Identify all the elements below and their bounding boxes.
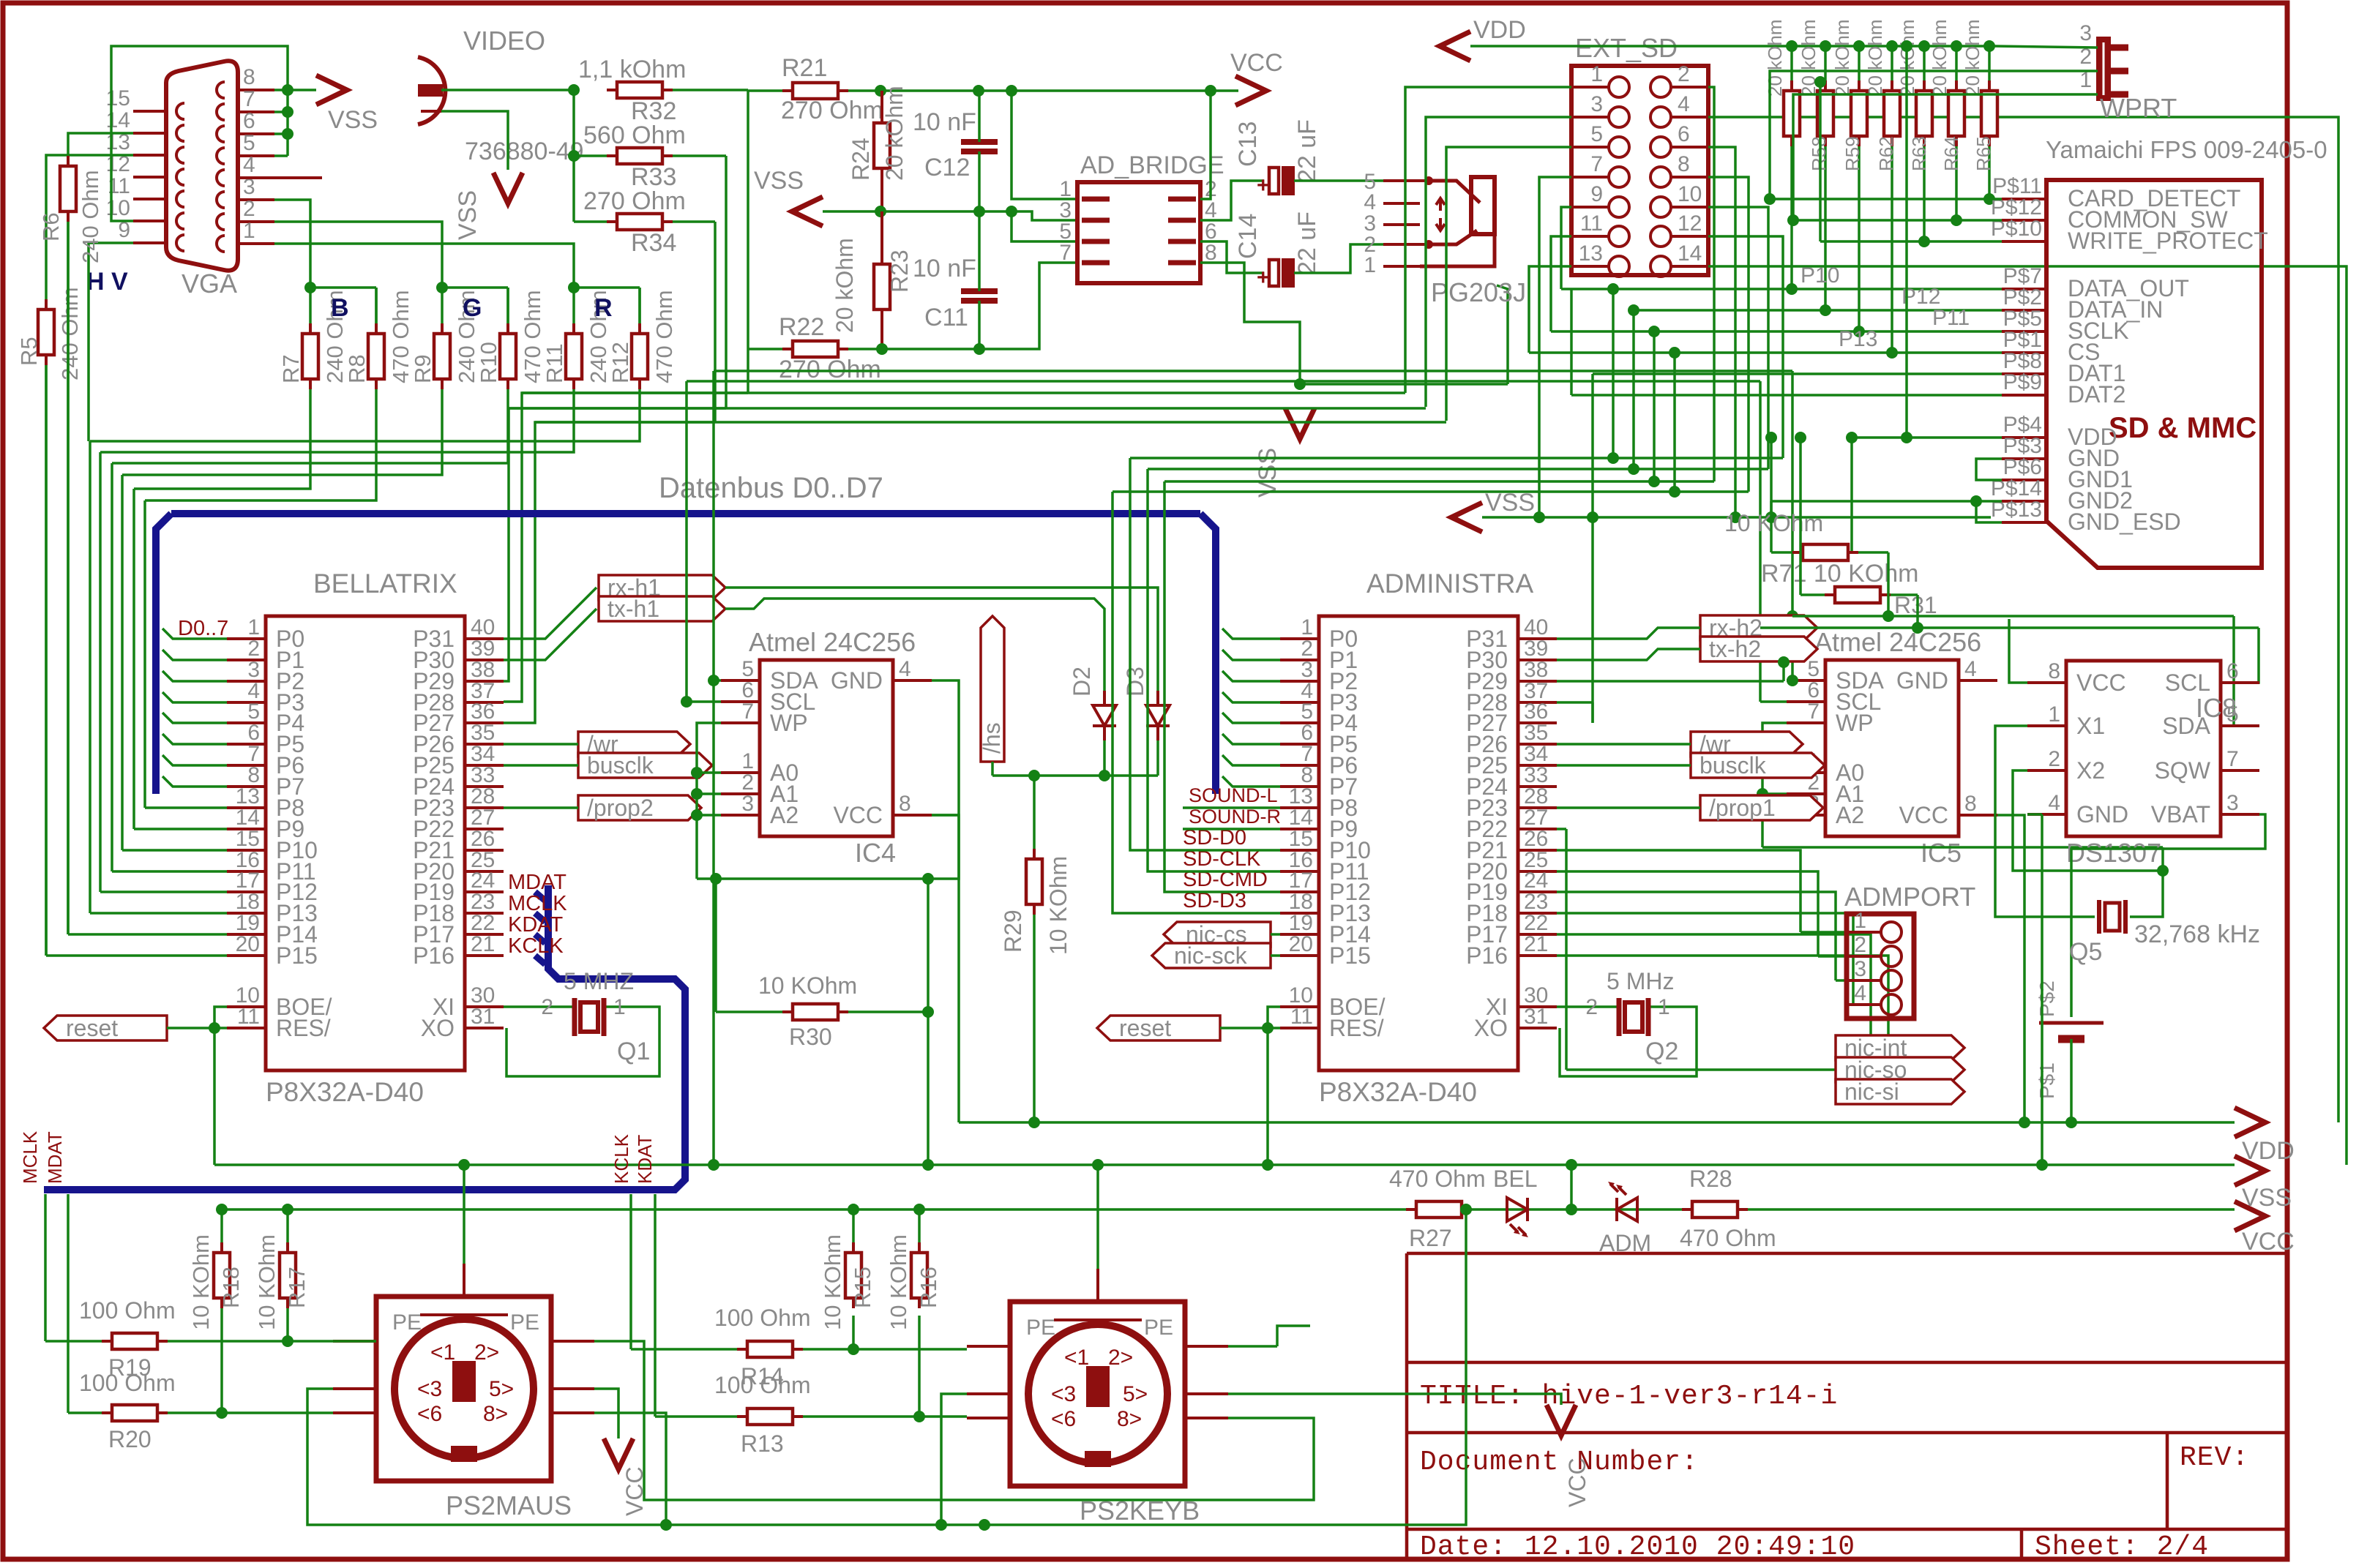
svg-text:100 Ohm: 100 Ohm — [714, 1372, 811, 1398]
svg-text:R59: R59 — [1841, 136, 1863, 171]
svg-text:<1: <1 — [430, 1340, 455, 1365]
svg-text:20: 20 — [1289, 932, 1313, 956]
svg-text:EXT_SD: EXT_SD — [1575, 33, 1678, 63]
svg-text:P16: P16 — [413, 942, 455, 969]
svg-text:C11: C11 — [924, 304, 968, 331]
svg-text:10 KOhm: 10 KOhm — [1724, 510, 1823, 536]
svg-text:4: 4 — [243, 153, 255, 177]
svg-text:4: 4 — [1964, 657, 1977, 681]
svg-text:D3: D3 — [1122, 667, 1148, 697]
svg-text:R9: R9 — [410, 354, 435, 383]
svg-text:G: G — [463, 294, 482, 322]
svg-text:10 KOhm: 10 KOhm — [188, 1234, 214, 1330]
svg-text:8: 8 — [1964, 792, 1977, 816]
svg-text:736880-49: 736880-49 — [465, 138, 584, 165]
svg-text:VBAT: VBAT — [2151, 801, 2210, 828]
svg-text:5>: 5> — [1123, 1382, 1148, 1406]
svg-text:240 Ohm: 240 Ohm — [57, 287, 83, 380]
svg-text:270 Ohm: 270 Ohm — [779, 356, 881, 383]
svg-text:Datenbus D0..D7: Datenbus D0..D7 — [659, 472, 883, 504]
svg-text:5 MHz: 5 MHz — [1607, 968, 1674, 994]
svg-text:Date: 12.10.2010 20:49:10: Date: 12.10.2010 20:49:10 — [1420, 1531, 1855, 1563]
svg-text:B: B — [331, 294, 349, 322]
svg-text:WRITE_PROTECT: WRITE_PROTECT — [2068, 228, 2268, 254]
svg-text:KDAT: KDAT — [508, 913, 563, 937]
svg-text:R20: R20 — [108, 1426, 152, 1452]
svg-text:VSS: VSS — [454, 190, 482, 240]
svg-text:VCC: VCC — [2076, 669, 2126, 696]
svg-text:470 Ohm: 470 Ohm — [1680, 1225, 1776, 1251]
svg-text:3: 3 — [2079, 21, 2092, 45]
svg-text:8: 8 — [243, 65, 255, 89]
svg-text:12: 12 — [1678, 211, 1702, 236]
svg-text:P15: P15 — [1329, 942, 1371, 969]
svg-text:8>: 8> — [483, 1402, 508, 1426]
svg-text:SQW: SQW — [2155, 757, 2211, 784]
svg-text:PE: PE — [392, 1310, 422, 1335]
svg-text:6: 6 — [2226, 659, 2239, 683]
svg-text:8: 8 — [1678, 152, 1690, 176]
svg-text:busclk: busclk — [587, 752, 654, 779]
svg-text:VGA: VGA — [182, 269, 237, 299]
svg-text:14: 14 — [106, 108, 130, 132]
svg-text:R58: R58 — [1808, 136, 1830, 171]
svg-text:15: 15 — [106, 86, 130, 110]
svg-text:10 nF: 10 nF — [913, 255, 976, 282]
svg-text:R21: R21 — [782, 54, 827, 82]
svg-text:R10: R10 — [476, 342, 501, 383]
svg-text:P$1: P$1 — [2035, 1062, 2058, 1099]
svg-text:P15: P15 — [276, 942, 318, 969]
svg-text:GND_ESD: GND_ESD — [2068, 509, 2181, 535]
svg-text:470 Ohm: 470 Ohm — [651, 290, 677, 383]
svg-text:10: 10 — [106, 196, 130, 220]
svg-text:5 MHZ: 5 MHZ — [564, 968, 634, 994]
svg-text:8: 8 — [1205, 241, 1217, 265]
svg-text:270 Ohm: 270 Ohm — [583, 187, 686, 215]
svg-text:<6: <6 — [1051, 1407, 1076, 1431]
svg-text:R16: R16 — [916, 1267, 941, 1308]
svg-text:270 Ohm: 270 Ohm — [781, 97, 883, 124]
svg-text:R23: R23 — [886, 250, 913, 293]
svg-text:1: 1 — [613, 995, 626, 1019]
svg-text:P$9: P$9 — [2003, 370, 2042, 394]
svg-text:SD & MMC: SD & MMC — [2109, 412, 2256, 444]
svg-text:WPRT: WPRT — [2100, 93, 2177, 123]
svg-text:R24: R24 — [848, 138, 874, 181]
svg-text:GND: GND — [1896, 667, 1948, 694]
svg-text:DS1307: DS1307 — [2066, 838, 2161, 868]
svg-text:/prop2: /prop2 — [587, 795, 654, 821]
svg-text:VCC: VCC — [621, 1466, 648, 1516]
svg-text:R: R — [594, 294, 613, 322]
svg-text:PS2MAUS: PS2MAUS — [446, 1490, 572, 1520]
svg-text:8: 8 — [899, 792, 911, 816]
svg-text:P$2: P$2 — [2035, 980, 2058, 1017]
svg-text:10 KOhm: 10 KOhm — [758, 972, 857, 999]
svg-text:+: + — [1257, 266, 1270, 290]
svg-text:PE: PE — [1026, 1316, 1055, 1340]
svg-text:BELLATRIX: BELLATRIX — [313, 569, 457, 599]
svg-text:ADM: ADM — [1599, 1230, 1651, 1256]
svg-text:C13: C13 — [1234, 121, 1262, 167]
svg-text:100 Ohm: 100 Ohm — [714, 1305, 811, 1331]
svg-text:32,768 kHz: 32,768 kHz — [2134, 920, 2260, 948]
svg-text:SOUND-L: SOUND-L — [1189, 784, 1278, 806]
svg-text:MDAT: MDAT — [44, 1131, 66, 1184]
svg-text:R5: R5 — [16, 337, 42, 366]
svg-text:P11: P11 — [1932, 306, 1970, 330]
svg-text:11: 11 — [1580, 211, 1603, 236]
svg-text:2: 2 — [541, 995, 553, 1019]
svg-text:240 Ohm: 240 Ohm — [78, 170, 103, 263]
svg-text:5: 5 — [1590, 122, 1603, 146]
svg-text:VCC: VCC — [1899, 802, 1948, 828]
svg-text:20 kOhm: 20 kOhm — [1962, 20, 1983, 97]
svg-text:10 KOhm: 10 KOhm — [820, 1234, 845, 1330]
svg-text:4: 4 — [1854, 981, 1866, 1005]
svg-text:1: 1 — [1658, 995, 1670, 1019]
svg-text:R15: R15 — [850, 1267, 875, 1308]
svg-text:RES/: RES/ — [276, 1015, 331, 1041]
svg-text:<3: <3 — [1051, 1382, 1076, 1406]
svg-text:C14: C14 — [1234, 214, 1262, 259]
svg-text:22 uF: 22 uF — [1293, 119, 1321, 183]
svg-text:100 Ohm: 100 Ohm — [79, 1297, 176, 1324]
svg-text:P8X32A-D40: P8X32A-D40 — [266, 1077, 424, 1107]
svg-text:VCC: VCC — [833, 802, 883, 828]
svg-text:4: 4 — [899, 657, 911, 681]
svg-text:/hs: /hs — [979, 722, 1005, 754]
svg-text:Q2: Q2 — [1645, 1038, 1678, 1065]
svg-text:SCL: SCL — [2165, 669, 2210, 696]
svg-text:VIDEO: VIDEO — [463, 26, 545, 56]
svg-text:R6: R6 — [38, 212, 64, 241]
svg-text:3: 3 — [2226, 791, 2239, 815]
svg-text:IC4: IC4 — [855, 838, 896, 868]
svg-text:P13: P13 — [1839, 327, 1877, 351]
svg-text:20 kOhm: 20 kOhm — [831, 238, 858, 333]
svg-text:5: 5 — [2226, 702, 2239, 727]
svg-text:Atmel 24C256: Atmel 24C256 — [1814, 627, 1981, 657]
svg-text:P10: P10 — [1801, 263, 1839, 288]
svg-text:A2: A2 — [770, 802, 799, 828]
svg-text:tx-h2: tx-h2 — [1709, 636, 1761, 662]
svg-text:AD_BRIDGE: AD_BRIDGE — [1080, 151, 1224, 179]
svg-text:1: 1 — [243, 219, 255, 243]
svg-text:R34: R34 — [631, 229, 676, 257]
svg-text:20 kOhm: 20 kOhm — [1864, 20, 1886, 97]
svg-text:1: 1 — [1854, 909, 1866, 933]
svg-text:10 nF: 10 nF — [913, 108, 976, 136]
svg-text:21: 21 — [1524, 932, 1548, 956]
svg-text:21: 21 — [471, 932, 495, 956]
svg-text:ADMINISTRA: ADMINISTRA — [1366, 569, 1534, 599]
svg-text:R29: R29 — [1000, 909, 1026, 953]
svg-text:10 KOhm: 10 KOhm — [1045, 856, 1072, 955]
svg-text:tx-h1: tx-h1 — [607, 596, 659, 622]
svg-text:10 KOhm: 10 KOhm — [254, 1234, 280, 1330]
svg-text:R13: R13 — [741, 1430, 784, 1457]
svg-text:R8: R8 — [344, 354, 370, 383]
svg-text:VCC: VCC — [1564, 1458, 1590, 1507]
svg-text:1: 1 — [1364, 253, 1376, 277]
svg-text:9: 9 — [1590, 182, 1603, 206]
svg-text:2: 2 — [243, 197, 255, 221]
svg-text:R11: R11 — [542, 343, 567, 383]
svg-text:1: 1 — [1590, 62, 1603, 86]
svg-text:R30: R30 — [789, 1024, 832, 1050]
svg-text:VCC: VCC — [2242, 1228, 2295, 1256]
svg-text:14: 14 — [1678, 241, 1702, 266]
svg-text:20: 20 — [236, 932, 260, 956]
svg-text:BEL: BEL — [1493, 1166, 1537, 1192]
svg-text:H V: H V — [86, 268, 128, 296]
svg-text:R64: R64 — [1940, 136, 1962, 171]
svg-text:MCLK: MCLK — [19, 1130, 41, 1184]
svg-text:2: 2 — [2048, 747, 2060, 771]
svg-text:10 KOhm: 10 KOhm — [886, 1234, 911, 1330]
svg-text:nic-sck: nic-sck — [1174, 942, 1248, 969]
svg-text:R63: R63 — [1908, 136, 1930, 171]
svg-text:R71 10 KOhm: R71 10 KOhm — [1761, 560, 1918, 588]
svg-text:31: 31 — [1524, 1005, 1548, 1029]
svg-text:nic-si: nic-si — [1844, 1079, 1899, 1105]
svg-text:13: 13 — [1579, 241, 1603, 266]
svg-text:REV:: REV: — [2180, 1442, 2249, 1474]
svg-text:/prop1: /prop1 — [1709, 795, 1776, 821]
svg-text:7: 7 — [2226, 747, 2239, 771]
svg-text:KDAT: KDAT — [634, 1134, 656, 1184]
svg-text:100 Ohm: 100 Ohm — [79, 1370, 176, 1396]
svg-text:Sheet: 2/4: Sheet: 2/4 — [2035, 1531, 2209, 1563]
svg-text:A2: A2 — [1836, 802, 1864, 828]
svg-text:XO: XO — [421, 1015, 455, 1041]
svg-text:WP: WP — [770, 710, 808, 736]
svg-text:6: 6 — [243, 109, 255, 133]
svg-text:2: 2 — [1678, 62, 1690, 86]
svg-text:470 Ohm: 470 Ohm — [1389, 1166, 1486, 1192]
svg-text:X2: X2 — [2076, 757, 2105, 784]
svg-text:R12: R12 — [607, 342, 633, 383]
svg-text:RES/: RES/ — [1329, 1015, 1384, 1041]
svg-text:P8X32A-D40: P8X32A-D40 — [1319, 1077, 1477, 1107]
svg-text:20 kOhm: 20 kOhm — [1831, 20, 1853, 97]
svg-text:R28: R28 — [1689, 1166, 1732, 1192]
svg-text:XO: XO — [1474, 1015, 1508, 1041]
svg-text:Yamaichi FPS 009-2405-0: Yamaichi FPS 009-2405-0 — [2046, 136, 2327, 163]
svg-text:DAT2: DAT2 — [2068, 381, 2125, 408]
svg-text:31: 31 — [471, 1005, 495, 1029]
svg-text:1: 1 — [2048, 702, 2060, 727]
svg-text:busclk: busclk — [1699, 752, 1767, 779]
svg-text:Document Number:: Document Number: — [1420, 1447, 1699, 1478]
svg-text:3: 3 — [1590, 92, 1603, 116]
svg-text:2>: 2> — [474, 1340, 499, 1365]
svg-text:PE: PE — [510, 1310, 539, 1335]
svg-text:KCLK: KCLK — [508, 934, 564, 958]
svg-text:Atmel 24C256: Atmel 24C256 — [749, 627, 916, 657]
svg-text:X1: X1 — [2076, 713, 2105, 739]
svg-text:20 kOhm: 20 kOhm — [1929, 20, 1951, 97]
svg-text:2: 2 — [1585, 995, 1598, 1019]
svg-text:R17: R17 — [284, 1267, 310, 1308]
svg-text:R27: R27 — [1409, 1225, 1452, 1251]
svg-text:8>: 8> — [1117, 1407, 1142, 1431]
svg-text:20 kOhm: 20 kOhm — [1764, 20, 1786, 97]
svg-text:7: 7 — [1590, 152, 1603, 176]
svg-text:GND: GND — [831, 667, 883, 694]
svg-text:Q5: Q5 — [2069, 938, 2102, 966]
svg-text:4: 4 — [1678, 92, 1690, 116]
svg-text:R22: R22 — [779, 313, 824, 341]
svg-text:20 kOhm: 20 kOhm — [881, 86, 908, 181]
svg-text:R7: R7 — [278, 354, 304, 383]
svg-text:11: 11 — [237, 1005, 260, 1029]
svg-text:1,1 kOhm: 1,1 kOhm — [578, 56, 686, 83]
svg-text:5>: 5> — [489, 1377, 514, 1401]
svg-text:GND: GND — [2076, 801, 2128, 828]
svg-text:22 uF: 22 uF — [1293, 211, 1321, 275]
svg-text:7: 7 — [1059, 241, 1072, 265]
svg-text:VSS: VSS — [328, 106, 378, 134]
svg-text:7: 7 — [741, 699, 754, 724]
svg-text:R62: R62 — [1875, 136, 1897, 171]
svg-text:VSS: VSS — [1254, 448, 1282, 498]
svg-text:PE: PE — [1144, 1316, 1173, 1340]
svg-text:Q1: Q1 — [617, 1038, 650, 1065]
svg-text:SDA: SDA — [2162, 713, 2210, 739]
svg-text:5: 5 — [243, 131, 255, 155]
svg-text:IC5: IC5 — [1921, 838, 1962, 868]
svg-text:8: 8 — [2048, 659, 2060, 683]
svg-text:TITLE: hive-1-ver3-r14-i: TITLE: hive-1-ver3-r14-i — [1420, 1381, 1838, 1412]
svg-text:4: 4 — [2048, 791, 2060, 815]
svg-text:10: 10 — [1678, 182, 1702, 206]
svg-text:R18: R18 — [218, 1267, 244, 1308]
svg-text:11: 11 — [1290, 1005, 1313, 1029]
svg-text:reset: reset — [1119, 1015, 1171, 1041]
svg-text:<6: <6 — [417, 1402, 442, 1426]
svg-text:VSS: VSS — [754, 167, 804, 195]
svg-text:KCLK: KCLK — [610, 1133, 632, 1184]
svg-text:D0..7: D0..7 — [178, 617, 228, 640]
svg-text:3: 3 — [1854, 957, 1866, 981]
svg-text:7: 7 — [243, 87, 255, 111]
svg-text:560 Ohm: 560 Ohm — [583, 121, 686, 149]
svg-text:D2: D2 — [1069, 667, 1095, 697]
svg-text:2: 2 — [1854, 933, 1866, 957]
svg-text:7: 7 — [1807, 699, 1820, 724]
svg-text:2>: 2> — [1108, 1346, 1133, 1370]
svg-text:ADMPORT: ADMPORT — [1844, 882, 1975, 912]
svg-text:VDD: VDD — [1473, 16, 1526, 44]
svg-text:6: 6 — [1678, 122, 1690, 146]
svg-text:VCC: VCC — [1230, 49, 1283, 77]
svg-text:3: 3 — [741, 792, 754, 816]
svg-text:WP: WP — [1836, 710, 1874, 736]
svg-text:<3: <3 — [417, 1377, 442, 1401]
svg-text:C12: C12 — [924, 154, 970, 181]
svg-text:<1: <1 — [1064, 1346, 1089, 1370]
svg-text:R65: R65 — [1973, 136, 1994, 171]
svg-text:P16: P16 — [1466, 942, 1508, 969]
svg-text:+: + — [1257, 173, 1270, 198]
svg-text:reset: reset — [66, 1015, 118, 1041]
